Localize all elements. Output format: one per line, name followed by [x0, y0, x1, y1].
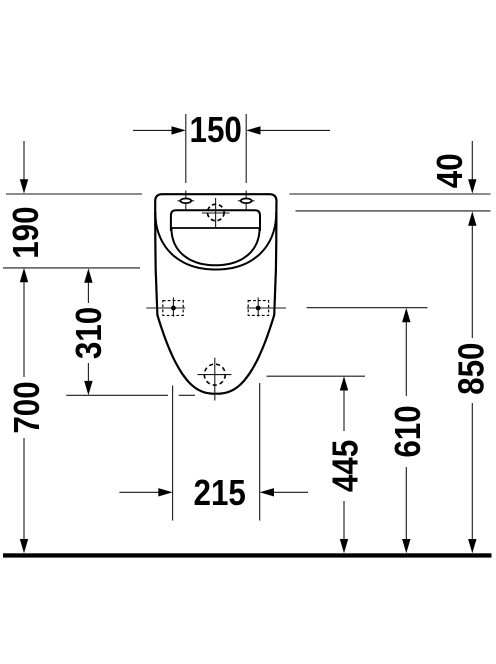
svg-text:150: 150	[190, 110, 242, 151]
svg-text:850: 850	[451, 343, 492, 395]
arrowhead 445 top (up)	[340, 376, 348, 390]
side hole right crosshair	[257, 298, 259, 317]
urinal inner rim box	[171, 210, 260, 231]
arrowhead 215 right (left-pointing)	[260, 488, 274, 496]
fixing hole right ellipse	[241, 199, 252, 204]
arrowhead 610 bottom (down)	[402, 539, 410, 553]
svg-text:190: 190	[6, 206, 47, 258]
arrowhead 190 top (down)	[20, 179, 28, 193]
arrowhead 150 left (right-pointing)	[172, 126, 186, 134]
inlet crosshair	[215, 198, 217, 228]
wire bottom tip reference line (310 end)	[66, 394, 168, 396]
wire dim 40/850 vertical x=472.3	[471, 141, 473, 181]
side hole left dot	[171, 306, 176, 311]
arrowhead 850 bottom (down)	[468, 539, 476, 553]
fixing hole right crosshair	[245, 191, 247, 211]
svg-text:40: 40	[430, 153, 471, 188]
wire extension line left (215 dim)	[172, 386, 174, 521]
arrowhead 610 top (up)	[402, 308, 410, 322]
arrowhead 190 bottom (up)	[20, 268, 28, 282]
urinal inner bowl curve	[172, 228, 260, 265]
wire rim-top reference line right (40mm below top)	[296, 210, 491, 212]
fixing hole left crosshair	[185, 191, 187, 211]
outlet crosshair	[214, 358, 216, 401]
wire extension line left hole (150 dim)	[185, 114, 187, 183]
wire top reference line left (urinal top level)	[6, 193, 142, 195]
inlet dashed circle	[208, 204, 225, 221]
arrowhead 150 right (left-pointing)	[246, 126, 260, 134]
urinal outer outline	[155, 194, 276, 394]
wire dim 310 vertical x=88.4	[87, 282, 89, 304]
urinal rim horizontal line	[171, 227, 260, 229]
wire extension line right hole (150 dim)	[245, 114, 247, 183]
svg-text:700: 700	[7, 381, 48, 433]
svg-text:610: 610	[388, 405, 429, 457]
arrowhead 40 top (down)	[468, 179, 476, 193]
wire dim 215 right tail	[272, 491, 308, 493]
svg-text:310: 310	[69, 307, 110, 359]
arrowhead 445 bottom (down)	[340, 539, 348, 553]
wire reference line at outlet level (445)	[267, 375, 366, 377]
side hole left dashed box	[163, 301, 183, 316]
arrowhead 310 top (up)	[84, 268, 92, 282]
side hole left crosshair	[172, 298, 174, 317]
wire dim 190/700 vertical x=24	[23, 141, 25, 181]
fixing hole left ellipse	[180, 199, 191, 204]
wire dim 150 right tail	[259, 129, 330, 131]
wire dim 215 left tail	[119, 491, 160, 493]
arrowhead 850 top (up)	[468, 211, 476, 225]
side hole right dot	[256, 306, 261, 311]
wire dim 610 vertical x=406.3	[405, 321, 407, 396]
wire dim 150 left tail	[133, 129, 173, 131]
wire left reference line at 700 level	[3, 267, 140, 269]
urinal outer bowl lip curve	[155, 212, 276, 270]
outlet dashed circle	[204, 364, 225, 385]
wire top reference line right (urinal top level)	[290, 193, 491, 195]
arrowhead 700 bottom (down)	[20, 539, 28, 553]
side hole right dashed box	[248, 301, 268, 316]
arrowhead 310 bottom (down)	[84, 381, 92, 395]
floor line	[3, 553, 492, 557]
arrowhead 215 left (right-pointing)	[158, 488, 172, 496]
wire extension line right (215 dim)	[259, 383, 261, 521]
svg-text:215: 215	[194, 473, 246, 514]
svg-text:445: 445	[325, 440, 366, 492]
wire reference line at side-hole level (610)	[307, 307, 428, 309]
wire dim 445 vertical x=344	[343, 390, 345, 432]
